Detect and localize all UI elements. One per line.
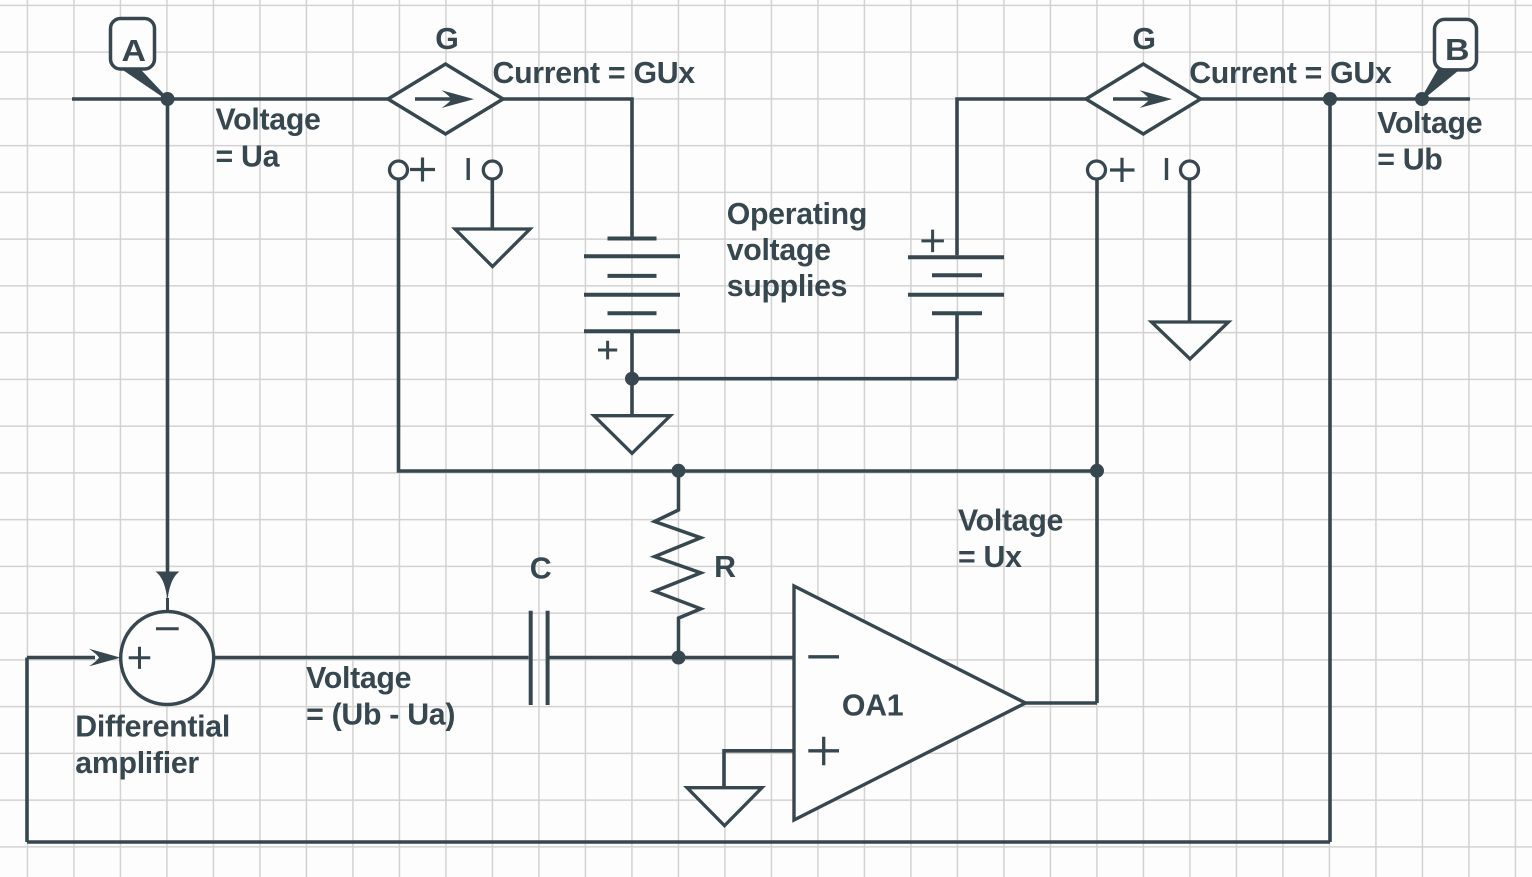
junction dot at B <box>1415 92 1429 106</box>
ground under battery V1 <box>594 416 671 454</box>
svg-text:= Ux: = Ux <box>958 541 1022 574</box>
current source G2 diamond <box>1086 64 1201 134</box>
wire diamond G1 right to battery top <box>501 99 632 237</box>
svg-text:= Ub: = Ub <box>1377 143 1442 176</box>
ground under op-amp <box>687 788 762 826</box>
wire diff amp to capacitor <box>214 656 529 660</box>
svg-text:OA1: OA1 <box>842 690 903 723</box>
battery V2 plus sign <box>921 230 944 253</box>
wire battery2 bottom down <box>955 313 959 378</box>
ground under T4 <box>1152 322 1229 359</box>
svg-text:Operating: Operating <box>727 198 867 231</box>
wire terminal T2 down to ground <box>490 179 494 229</box>
battery V1 plates <box>584 239 680 332</box>
capacitor C plates <box>531 611 548 705</box>
battery V2 plates <box>908 257 1004 313</box>
junction dot top right rail <box>1323 92 1337 106</box>
op-amp OA1 triangle <box>794 586 1026 820</box>
svg-text:Current = GUx: Current = GUx <box>1189 57 1392 90</box>
wire right vertical of feedback loop <box>1328 99 1332 842</box>
svg-text:G: G <box>1132 23 1155 56</box>
wire node A vertical down to diff amp <box>166 99 170 572</box>
arrow into diff amp plus input <box>89 649 121 667</box>
node A label box <box>111 19 168 100</box>
wire terminal T3 down through junction to opamp output corner <box>1095 179 1099 703</box>
diff amp circle U2 <box>121 612 214 705</box>
wire left vertical of feedback loop <box>25 658 29 843</box>
svg-text:R: R <box>714 551 736 584</box>
arrow down into diff amp <box>156 572 180 601</box>
svg-text:voltage: voltage <box>727 234 831 267</box>
junction dot battery bus <box>625 372 639 386</box>
svg-text:Voltage: Voltage <box>306 662 411 695</box>
wire opamp output <box>1026 701 1098 705</box>
svg-text:amplifier: amplifier <box>75 747 199 780</box>
junction dot resistor top <box>672 464 686 478</box>
terminal T4 circle minus <box>1167 158 1199 180</box>
svg-text:supplies: supplies <box>727 270 848 303</box>
svg-text:Voltage: Voltage <box>216 104 321 137</box>
svg-text:= Ua: = Ua <box>216 140 281 173</box>
svg-text:Current = GUx: Current = GUx <box>493 57 696 90</box>
wire diamond G2 right to node B and edge <box>1200 97 1470 101</box>
svg-text:A: A <box>122 34 146 68</box>
svg-text:Voltage: Voltage <box>958 504 1063 537</box>
svg-text:G: G <box>435 23 458 56</box>
wire terminal T1 down and mid horizontal <box>399 179 1098 471</box>
wire capacitor to opamp minus input <box>550 656 795 660</box>
terminal T3 circle plus <box>1088 158 1135 182</box>
wire opamp plus input to ground <box>724 751 794 787</box>
wire battery junction horizontal to battery2 <box>632 377 957 381</box>
svg-text:= (Ub - Ua): = (Ub - Ua) <box>306 699 455 732</box>
junction dot at A <box>161 92 175 106</box>
node B label box <box>1422 19 1477 99</box>
junction dot resistor bottom <box>672 651 686 665</box>
wire battery1 bottom to junction and ground <box>630 331 634 415</box>
svg-text:C: C <box>530 553 552 586</box>
wire battery2 top up to top rail <box>957 99 1086 255</box>
svg-text:B: B <box>1445 33 1469 67</box>
wire terminal T4 down to ground <box>1188 179 1192 322</box>
terminal T2 circle minus <box>468 158 501 180</box>
resistor R <box>655 470 701 657</box>
terminal T1 circle plus <box>390 158 436 182</box>
current source G1 diamond <box>388 64 503 134</box>
wire diff amp input from loop <box>27 656 95 660</box>
wire top-left horizontal <box>72 97 390 101</box>
wire bottom of feedback loop <box>27 840 1330 844</box>
svg-text:Differential: Differential <box>75 711 230 744</box>
junction dot Ux <box>1090 464 1104 478</box>
svg-text:Voltage: Voltage <box>1377 107 1482 140</box>
ground under T2 <box>455 229 530 267</box>
battery V1 plus sign <box>598 341 617 360</box>
